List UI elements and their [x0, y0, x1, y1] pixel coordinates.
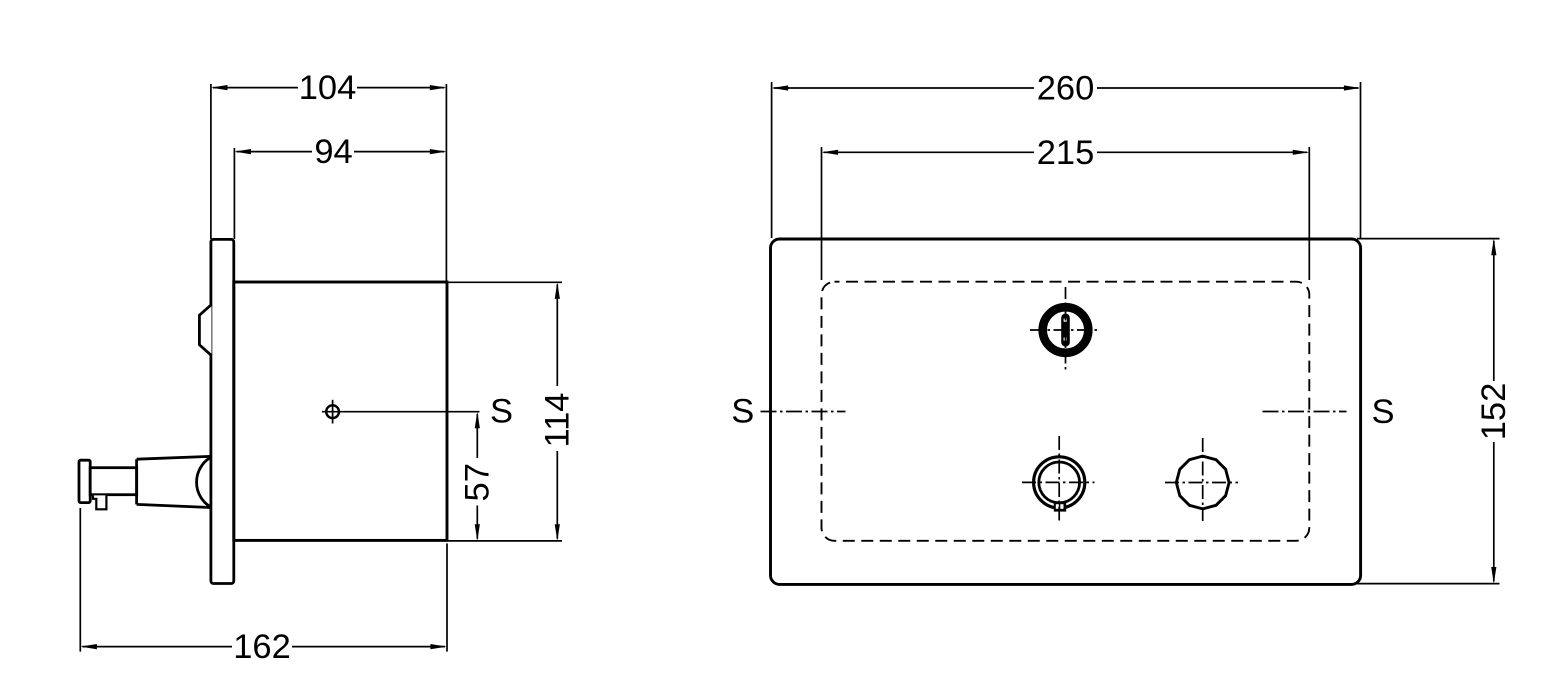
mounting bump on flange left side [199, 305, 211, 356]
dimension 260 [772, 82, 1361, 238]
flange plate (side view) [211, 239, 234, 583]
pump spout nozzle [93, 495, 107, 509]
lock keyhole ring [1043, 307, 1089, 353]
dimension 57 [476, 414, 478, 539]
pump hole centerlines [1022, 436, 1095, 523]
S section line right [1263, 411, 1347, 413]
dimension 152 [1357, 239, 1500, 584]
S section line left [761, 411, 846, 413]
sight hole centerlines [1165, 438, 1238, 521]
keyhole centerlines [1030, 287, 1099, 371]
svg-text:94: 94 [314, 133, 352, 171]
pump cap (side view) [79, 460, 90, 502]
svg-text:215: 215 [1037, 134, 1095, 172]
svg-text:114: 114 [538, 392, 576, 447]
svg-text:162: 162 [233, 628, 291, 666]
pump shaft [90, 468, 137, 495]
svg-text:260: 260 [1037, 70, 1095, 108]
recess cutout dashed rect [822, 282, 1310, 541]
svg-text:S: S [1371, 393, 1394, 431]
dimension 104 [211, 84, 447, 281]
svg-text:152: 152 [1475, 383, 1513, 441]
dimension 215 [822, 147, 1310, 280]
recessed box body (side view) [234, 282, 447, 540]
pump cone body [137, 456, 211, 507]
svg-text:S: S [731, 393, 754, 431]
svg-text:57: 57 [458, 463, 496, 501]
sight window hole (polygon circle) [1176, 456, 1229, 509]
keyhole slot [1061, 314, 1070, 347]
dimension 94 [234, 148, 444, 239]
dimension 162 [80, 508, 447, 652]
svg-text:S: S [490, 393, 513, 431]
pump hole bottom tab [1054, 502, 1066, 511]
svg-text:104: 104 [299, 69, 357, 107]
pump body end arc at flange [197, 458, 211, 507]
dimension 114 [449, 282, 563, 541]
front panel outer [771, 239, 1361, 584]
soap pump hole (double circle) [1034, 457, 1085, 508]
phi hole marker (side view) [322, 400, 480, 424]
